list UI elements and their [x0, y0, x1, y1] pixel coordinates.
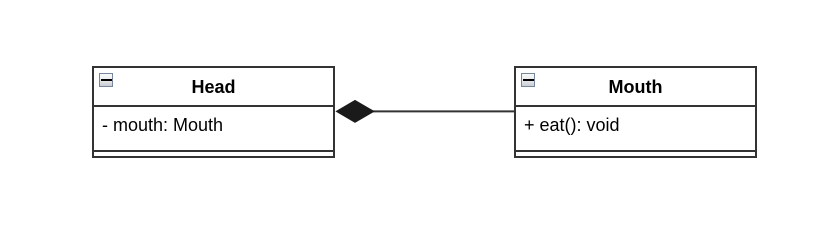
attribute - mouth: Mouth	[94, 107, 333, 152]
empty operations compartment of Head	[94, 151, 333, 153]
operation + eat(): void	[516, 107, 755, 152]
class name Head	[94, 68, 333, 107]
composition diamond	[335, 100, 374, 123]
wire	[370, 110, 515, 112]
collapse button of Mouth	[521, 73, 535, 87]
class Mouth	[514, 66, 757, 158]
class Head	[92, 66, 335, 158]
class name Mouth	[516, 68, 755, 107]
empty operations compartment of Mouth	[516, 151, 755, 153]
collapse button of Head	[99, 73, 113, 87]
